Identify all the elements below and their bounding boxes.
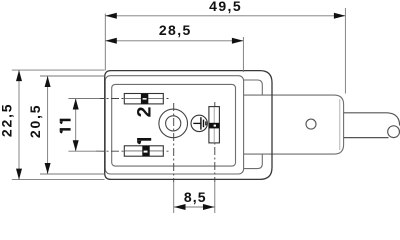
dim 28,5 left arrowhead bbox=[105, 38, 117, 44]
dim 20,5 top arrowhead bbox=[45, 76, 51, 87]
gland housing side part bbox=[244, 95, 344, 154]
centerline screw vertical bbox=[173, 103, 175, 182]
dim 11 top arrowhead bbox=[73, 99, 79, 110]
svg-text:22,5: 22,5 bbox=[0, 103, 14, 137]
dim 28,5 right arrowhead bbox=[232, 38, 244, 44]
svg-text:28,5: 28,5 bbox=[159, 22, 192, 38]
cable bbox=[344, 113, 400, 138]
gland inner edge line bbox=[339, 99, 341, 150]
svg-text:20,5: 20,5 bbox=[27, 104, 43, 138]
dim 49,5 extension and dimension lines bbox=[105, 8, 345, 94]
svg-text:49,5: 49,5 bbox=[209, 0, 242, 14]
dim 8,5 extension and dimension lines bbox=[174, 182, 215, 213]
centerline terminal 2 bbox=[96, 98, 170, 100]
bottom step F bbox=[244, 154, 263, 169]
gland mounting hole bbox=[306, 119, 316, 129]
dim 20,5 extension and dimension lines bbox=[40, 76, 105, 174]
centerline terminal 1 bbox=[96, 150, 170, 152]
dim 49,5 left arrowhead bbox=[105, 13, 117, 19]
central fixing screw bbox=[159, 109, 188, 138]
dim 22,5 extension and dimension lines bbox=[12, 70, 105, 180]
face plate C bbox=[112, 84, 236, 166]
centerline ground vertical bbox=[214, 102, 216, 182]
dim 11 extension and dimension lines bbox=[68, 99, 100, 152]
body outline B (mid housing) bbox=[105, 76, 243, 174]
dim 8,5 right arrowhead bbox=[203, 204, 215, 210]
dim 22,5 top arrowhead bbox=[16, 70, 22, 81]
dim 8,5 left arrowhead bbox=[174, 204, 186, 210]
dim 49,5 right arrowhead bbox=[334, 13, 346, 19]
dim 28,5 extension and dimension lines bbox=[105, 37, 243, 72]
dim 20,5 bottom arrowhead bbox=[45, 163, 51, 174]
pin label 1 bbox=[137, 138, 151, 144]
ground circle with earth symbol bbox=[191, 115, 207, 131]
top step E bbox=[244, 80, 263, 95]
body outline A (outer housing) bbox=[105, 71, 272, 180]
ground terminal block bbox=[209, 107, 220, 143]
terminal contact 2 bbox=[124, 94, 163, 104]
svg-text:2: 2 bbox=[134, 106, 156, 117]
svg-text:8,5: 8,5 bbox=[184, 189, 207, 205]
dim 22,5 bottom arrowhead bbox=[16, 169, 22, 180]
terminal contact 1 bbox=[124, 146, 163, 156]
dim 11 bottom arrowhead bbox=[73, 140, 79, 151]
value label 11 bbox=[60, 119, 71, 134]
